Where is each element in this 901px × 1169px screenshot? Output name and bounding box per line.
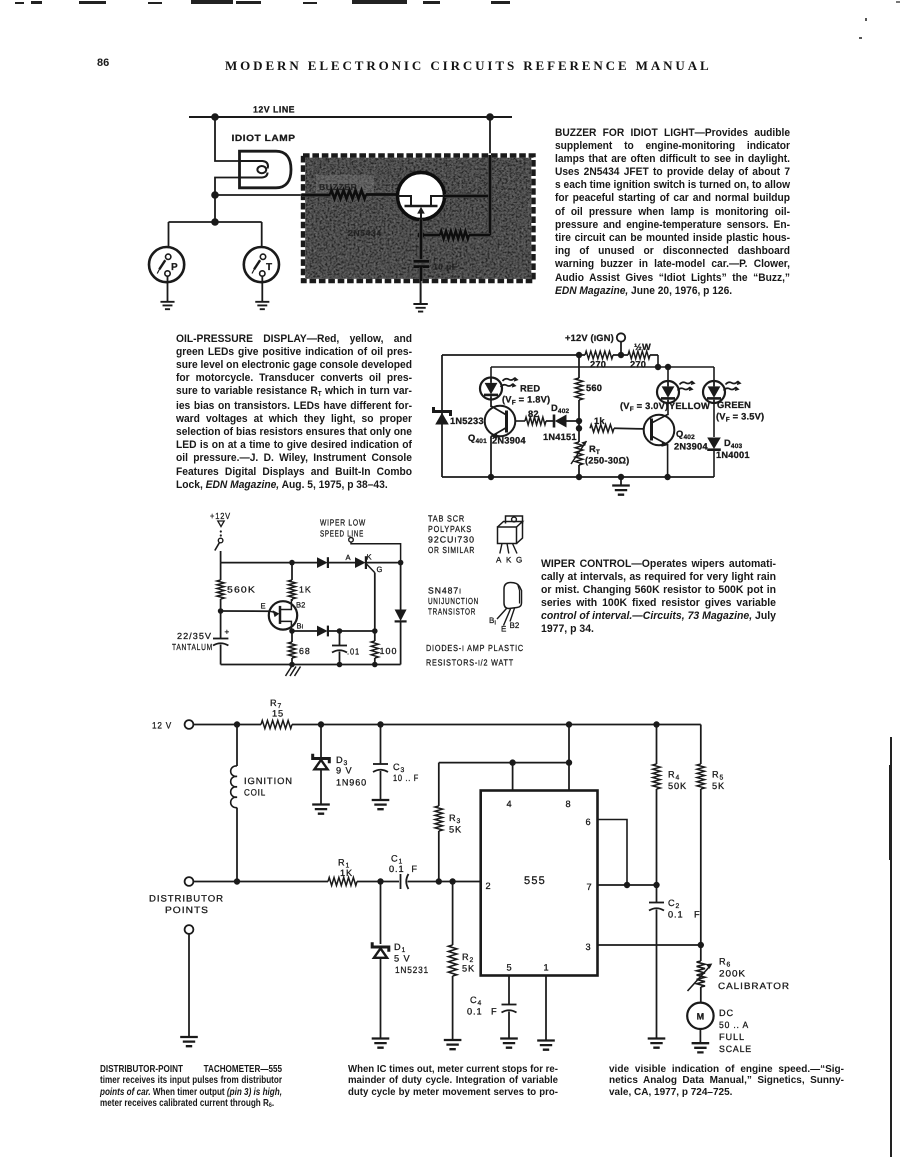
svg-text:RESISTORS-I/2 WATT: RESISTORS-I/2 WATT <box>426 658 514 668</box>
wire <box>700 945 702 961</box>
wire <box>339 652 341 665</box>
wire points line <box>193 881 328 883</box>
svg-text:0.1: 0.1 <box>668 910 683 920</box>
diode series <box>317 557 355 568</box>
svg-text:D1: D1 <box>394 942 406 954</box>
junction buzzer drop <box>486 113 494 121</box>
wire 1k-Q402 base <box>614 427 644 430</box>
wire <box>291 658 293 665</box>
zener 1N5233 <box>434 407 484 426</box>
terminal +12V <box>617 333 625 341</box>
wire <box>452 976 454 1040</box>
svg-text:5K: 5K <box>449 825 462 835</box>
wire pin6 <box>598 820 628 886</box>
svg-text:50K: 50K <box>668 781 687 791</box>
sensor P (oil pressure sender) <box>149 222 184 301</box>
caption: tachometer col 2 <box>348 1064 558 1098</box>
wire <box>328 630 375 632</box>
svg-text:A: A <box>346 553 352 562</box>
resistor 1K <box>288 563 311 601</box>
wire <box>438 831 440 882</box>
junction pin3 R5 R6 <box>698 942 704 948</box>
svg-text:GREEN: GREEN <box>717 400 751 410</box>
wire <box>656 885 658 902</box>
svg-text:COIL: COIL <box>244 788 266 798</box>
BEGIN c1 <box>149 105 534 312</box>
transistor Q402 <box>644 415 709 452</box>
wire terminal riser <box>620 342 622 355</box>
svg-text:200K: 200K <box>719 969 746 979</box>
zener D3 <box>313 725 367 805</box>
terminal distributor points A <box>149 877 224 915</box>
svg-text:OR SIMILAR: OR SIMILAR <box>428 545 475 555</box>
wire <box>220 551 222 563</box>
wire rail A right <box>650 354 658 356</box>
wire <box>320 725 322 759</box>
junction pin7 C2 R4 <box>653 882 659 888</box>
terminal <box>185 877 194 886</box>
wire <box>380 958 382 1038</box>
wire <box>292 630 317 632</box>
wire buzzer ground stem <box>420 281 422 304</box>
svg-text:Q402: Q402 <box>676 429 695 441</box>
wire yellow-Q402 <box>667 403 669 415</box>
svg-text:SCALE: SCALE <box>719 1044 752 1054</box>
svg-text:E: E <box>261 602 266 611</box>
wire <box>490 400 492 408</box>
resistor buzzer coil <box>302 190 398 198</box>
wire rail A corner <box>657 355 659 367</box>
svg-text:K: K <box>367 553 372 562</box>
junction R3 bottom <box>436 878 442 884</box>
diode D403 <box>707 403 750 477</box>
wire <box>261 222 263 255</box>
svg-text:POINTS: POINTS <box>165 905 209 915</box>
svg-text:.01: .01 <box>347 647 360 657</box>
junction C3 top <box>377 721 383 727</box>
op-amp U1 555 timer <box>481 791 598 976</box>
wire bottom rail <box>442 476 714 478</box>
wire buzzer supply drop <box>489 117 491 155</box>
capacitor 10uF <box>414 219 458 281</box>
buzzer housing (shaded photo) <box>303 156 534 282</box>
svg-text:1N960: 1N960 <box>336 778 367 788</box>
wire <box>400 622 402 665</box>
junction R4 top <box>653 721 659 727</box>
svg-text:15: 15 <box>272 709 284 719</box>
wire <box>713 403 715 437</box>
wire <box>490 436 492 477</box>
wire <box>700 725 702 765</box>
svg-text:P: P <box>171 262 178 273</box>
svg-text:+: + <box>225 628 230 637</box>
resistor source branch <box>418 231 490 239</box>
svg-text:8: 8 <box>565 799 570 809</box>
wire <box>339 631 341 645</box>
wire <box>508 1012 510 1039</box>
wire <box>291 563 293 580</box>
wire pin4 riser <box>512 763 514 791</box>
LED yellow <box>657 381 696 404</box>
wire <box>291 599 293 601</box>
wire <box>261 276 263 301</box>
resistor R5 <box>697 725 725 946</box>
svg-text:2N3904: 2N3904 <box>674 442 708 452</box>
resistor R4 <box>653 725 687 886</box>
wire <box>168 222 170 255</box>
page number <box>97 57 109 69</box>
wire JFET drain <box>445 155 491 235</box>
note diodes <box>426 643 524 653</box>
wire top rail <box>221 562 317 564</box>
caption: tachometer col 3 <box>609 1064 844 1098</box>
svg-text:4: 4 <box>506 799 511 809</box>
wire lamp top lead <box>215 117 240 161</box>
svg-text:RT: RT <box>589 444 600 456</box>
UJT package drawing <box>489 583 522 634</box>
ground T <box>255 302 269 309</box>
title <box>225 58 712 74</box>
svg-text:560: 560 <box>586 383 602 393</box>
junction node lamp-buzzer <box>211 191 219 199</box>
ground P <box>160 302 174 309</box>
wire <box>578 400 580 442</box>
svg-text:POLYPAKS: POLYPAKS <box>428 524 472 534</box>
junction coil bottom <box>234 878 240 884</box>
svg-text:7: 7 <box>586 882 591 892</box>
svg-text:5: 5 <box>506 963 511 973</box>
svg-text:DISTRIBUTOR: DISTRIBUTOR <box>149 894 224 904</box>
resistor R2 <box>448 882 475 1040</box>
svg-text:82: 82 <box>528 409 539 419</box>
wire pin7 <box>598 884 657 886</box>
junction B1 <box>289 628 295 634</box>
svg-text:FULL: FULL <box>719 1032 745 1042</box>
wire <box>236 725 238 767</box>
resistor 82 <box>525 409 546 425</box>
resistor 100 <box>371 631 397 665</box>
wire C1-pin2 <box>408 881 481 883</box>
wire <box>656 725 658 765</box>
junction 68 bottom <box>289 662 295 668</box>
ground R2 <box>444 1040 462 1049</box>
terminal distributor points B <box>185 925 194 1036</box>
wire <box>220 645 222 665</box>
svg-text:270: 270 <box>590 360 606 370</box>
svg-text:270: 270 <box>630 360 646 370</box>
svg-text:TANTALUM: TANTALUM <box>172 642 213 652</box>
svg-text:R3: R3 <box>449 813 461 825</box>
transistor Q401 <box>468 400 526 478</box>
transistor Q1 JFET 2N5434 <box>398 173 445 220</box>
diode D402 <box>543 403 579 442</box>
svg-text:F: F <box>694 910 701 920</box>
wire rail A left <box>442 354 585 356</box>
svg-text:IGNITION: IGNITION <box>244 776 293 786</box>
wire lamp bottom lead <box>215 178 240 196</box>
svg-text:2: 2 <box>485 881 490 891</box>
wire 12V line <box>189 116 512 118</box>
wire bottom rail <box>221 664 401 666</box>
svg-text:C2: C2 <box>668 898 680 910</box>
svg-text:1N4151: 1N4151 <box>543 432 577 442</box>
potentiometer R6 <box>688 945 791 1003</box>
svg-text:BUZZER: BUZZER <box>319 182 358 192</box>
ground chassis <box>286 667 301 677</box>
resistor 560 <box>575 355 602 442</box>
wire <box>578 355 580 378</box>
svg-text:R6: R6 <box>719 957 731 969</box>
junction gate <box>372 628 378 634</box>
svg-text:(VF = 3.5V): (VF = 3.5V) <box>716 412 764 424</box>
wire <box>167 276 169 301</box>
svg-text:DC: DC <box>719 1008 734 1018</box>
LED green <box>703 381 742 404</box>
wire pin3 <box>598 944 701 946</box>
svg-text:D402: D402 <box>551 403 570 415</box>
junction yellow LED <box>665 364 671 370</box>
junction R2 top <box>449 878 455 884</box>
wire rail B <box>491 366 714 368</box>
svg-text:TRANSISTOR: TRANSISTOR <box>428 607 476 617</box>
svg-text:R4: R4 <box>668 770 680 782</box>
svg-text:F: F <box>491 1007 498 1017</box>
svg-text:SN487I: SN487I <box>428 586 462 596</box>
svg-text:1K: 1K <box>299 585 312 595</box>
svg-text:12V LINE: 12V LINE <box>253 105 295 115</box>
wire <box>220 611 222 638</box>
transistor UJT SN4871 <box>221 599 306 632</box>
junction 560 top <box>576 352 582 358</box>
wire rail A mid <box>613 354 628 356</box>
inductor ignition coil <box>231 725 293 882</box>
resistor 1k <box>590 416 614 432</box>
meter M <box>687 1003 752 1054</box>
svg-text:Q401: Q401 <box>468 433 487 445</box>
wire <box>700 789 702 945</box>
BEGIN c4 <box>149 698 790 1054</box>
junction Q401 emitter <box>488 474 494 480</box>
svg-text:K: K <box>506 556 512 565</box>
svg-text:B2: B2 <box>296 601 305 610</box>
svg-text:TAB SCR: TAB SCR <box>428 514 465 524</box>
resistor R1 <box>328 858 357 886</box>
ground points <box>180 1037 198 1046</box>
svg-text:BI: BI <box>297 622 304 631</box>
wire <box>366 562 401 564</box>
junction pin4 <box>509 759 515 765</box>
svg-text:SPEED LINE: SPEED LINE <box>320 529 364 539</box>
junction pin6-pin7 <box>624 882 630 888</box>
zener D1 <box>372 882 429 1039</box>
resistor R7 <box>261 698 292 729</box>
wire <box>188 934 190 1037</box>
junction D402 <box>576 418 582 424</box>
svg-text:IDIOT LAMP: IDIOT LAMP <box>232 133 296 143</box>
svg-text:DIODES-I AMP PLASTIC: DIODES-I AMP PLASTIC <box>426 643 524 653</box>
diode B1 line <box>292 626 375 637</box>
svg-text:YELLOW: YELLOW <box>669 401 710 411</box>
resistor 270 (2) <box>628 342 651 370</box>
sensor T (temperature sender) <box>244 222 279 301</box>
wire senders rail <box>169 221 262 223</box>
wire left wall <box>441 355 443 477</box>
svg-text:B2: B2 <box>510 621 520 630</box>
wire <box>380 771 382 800</box>
wire ground stub <box>620 477 622 485</box>
wire <box>291 631 293 642</box>
svg-text:22/35V: 22/35V <box>177 631 212 641</box>
wire <box>328 562 355 564</box>
LED red <box>480 377 519 400</box>
resistor 68 <box>288 631 310 665</box>
note SN4871 UJT <box>428 586 479 617</box>
svg-text:UNIJUNCTION: UNIJUNCTION <box>428 596 479 606</box>
wire top rail <box>193 724 261 726</box>
capacitor .01 <box>332 631 360 665</box>
wire <box>713 451 715 477</box>
right-edge scan line <box>890 737 892 1157</box>
svg-text:2N5434: 2N5434 <box>348 228 382 238</box>
svg-text:5K: 5K <box>462 964 475 974</box>
svg-text:½W: ½W <box>634 342 651 352</box>
junction ground <box>618 474 624 480</box>
junction RT bottom <box>576 474 582 480</box>
wire pin8 riser <box>568 725 570 791</box>
SCR package drawing <box>496 516 523 565</box>
wire <box>508 976 510 1005</box>
caption: buzzer for idiot light <box>555 127 790 298</box>
wire red LED riser <box>490 367 492 378</box>
lamp idiot lamp <box>232 133 296 188</box>
terminal <box>185 925 194 934</box>
resistor R3 <box>435 763 462 882</box>
svg-text:50 .. A: 50 .. A <box>719 1020 749 1030</box>
svg-text:G: G <box>516 556 522 565</box>
zener <box>313 754 330 764</box>
junction coil top <box>234 721 240 727</box>
wire <box>656 910 658 1039</box>
note TAB SCR <box>428 514 475 556</box>
wire <box>380 725 382 765</box>
junction senders <box>211 218 219 226</box>
BEGIN c2 <box>434 333 765 495</box>
scan dash artifacts top edge <box>15 2 24 4</box>
ground C3 <box>372 800 390 809</box>
svg-text:A: A <box>496 556 502 565</box>
resistor 270 (1) <box>585 351 613 369</box>
svg-text:E: E <box>501 625 506 634</box>
junction K-line <box>398 560 404 566</box>
ground D1 <box>372 1039 390 1048</box>
svg-text:1K: 1K <box>340 868 353 878</box>
svg-text:1: 1 <box>543 963 548 973</box>
junction 1k <box>576 425 582 431</box>
svg-text:T: T <box>266 262 272 273</box>
svg-text:WIPER LOW: WIPER LOW <box>320 518 366 528</box>
caption: wiper control <box>541 558 776 637</box>
wire <box>351 542 401 563</box>
ground meter <box>692 1043 710 1052</box>
svg-text:5K: 5K <box>712 781 725 791</box>
wire <box>380 882 382 945</box>
wire down <box>214 195 216 222</box>
svg-text:10 μF: 10 μF <box>433 262 457 272</box>
wire <box>700 987 702 1003</box>
terminal wiper low speed line <box>320 518 401 563</box>
wire <box>567 420 580 422</box>
note resistors <box>426 658 514 668</box>
caption: tachometer col 1 <box>100 1064 282 1110</box>
junction pin8 <box>566 759 572 765</box>
resistor 560K <box>217 563 256 611</box>
zener <box>372 942 389 952</box>
wire <box>578 465 580 477</box>
junction 1K top <box>289 560 295 566</box>
caption: oil-pressure display <box>176 333 412 492</box>
svg-text:G: G <box>377 565 383 574</box>
wire <box>438 763 440 806</box>
svg-text:0.1: 0.1 <box>467 1007 482 1017</box>
wire top rail 2 <box>292 724 701 726</box>
diode right branch <box>395 563 407 665</box>
junction .01 cap <box>337 628 343 634</box>
wire R1-C1 <box>357 881 399 883</box>
wire <box>452 882 454 946</box>
svg-text:555: 555 <box>524 875 546 887</box>
wire <box>546 420 554 422</box>
wire <box>220 563 222 580</box>
junction pin8 riser <box>566 721 572 727</box>
wire gate <box>374 573 376 631</box>
svg-text:9 V: 9 V <box>336 766 353 776</box>
svg-text:10 .. F: 10 .. F <box>393 773 419 783</box>
wire <box>220 599 222 611</box>
capacitor C3 <box>373 725 419 800</box>
svg-text:6: 6 <box>585 817 590 827</box>
svg-text:68: 68 <box>299 646 311 656</box>
wire <box>236 808 238 882</box>
wire to buzzer box <box>215 194 302 196</box>
svg-text:R2: R2 <box>462 952 474 964</box>
junction Q402 emitter <box>664 474 670 480</box>
svg-text:100: 100 <box>380 646 398 656</box>
svg-text:12 V: 12 V <box>152 721 172 731</box>
svg-text:BI: BI <box>489 616 496 627</box>
svg-text:+12V: +12V <box>210 511 231 521</box>
svg-text:1N5233: 1N5233 <box>450 416 484 426</box>
junction 100 bottom <box>372 662 378 668</box>
wire meter ground <box>699 1029 701 1043</box>
wire <box>400 563 402 610</box>
svg-text:CALIBRATOR: CALIBRATOR <box>718 981 790 991</box>
svg-text:+12V (IGN): +12V (IGN) <box>565 333 614 343</box>
ground D3 <box>312 805 330 814</box>
svg-text:RED: RED <box>520 384 540 394</box>
wire <box>374 631 376 641</box>
svg-text:1N4001: 1N4001 <box>716 450 750 460</box>
junction terminal <box>618 352 624 358</box>
svg-text:3: 3 <box>585 942 590 952</box>
capacitor C2 <box>649 885 701 1038</box>
junction D1 <box>377 878 383 884</box>
wire <box>221 610 270 612</box>
wire <box>656 789 658 885</box>
svg-text:(250-30Ω): (250-30Ω) <box>585 456 629 466</box>
SCR <box>346 553 401 575</box>
svg-text:2N3904: 2N3904 <box>492 436 526 446</box>
potentiometer RT <box>571 441 629 477</box>
